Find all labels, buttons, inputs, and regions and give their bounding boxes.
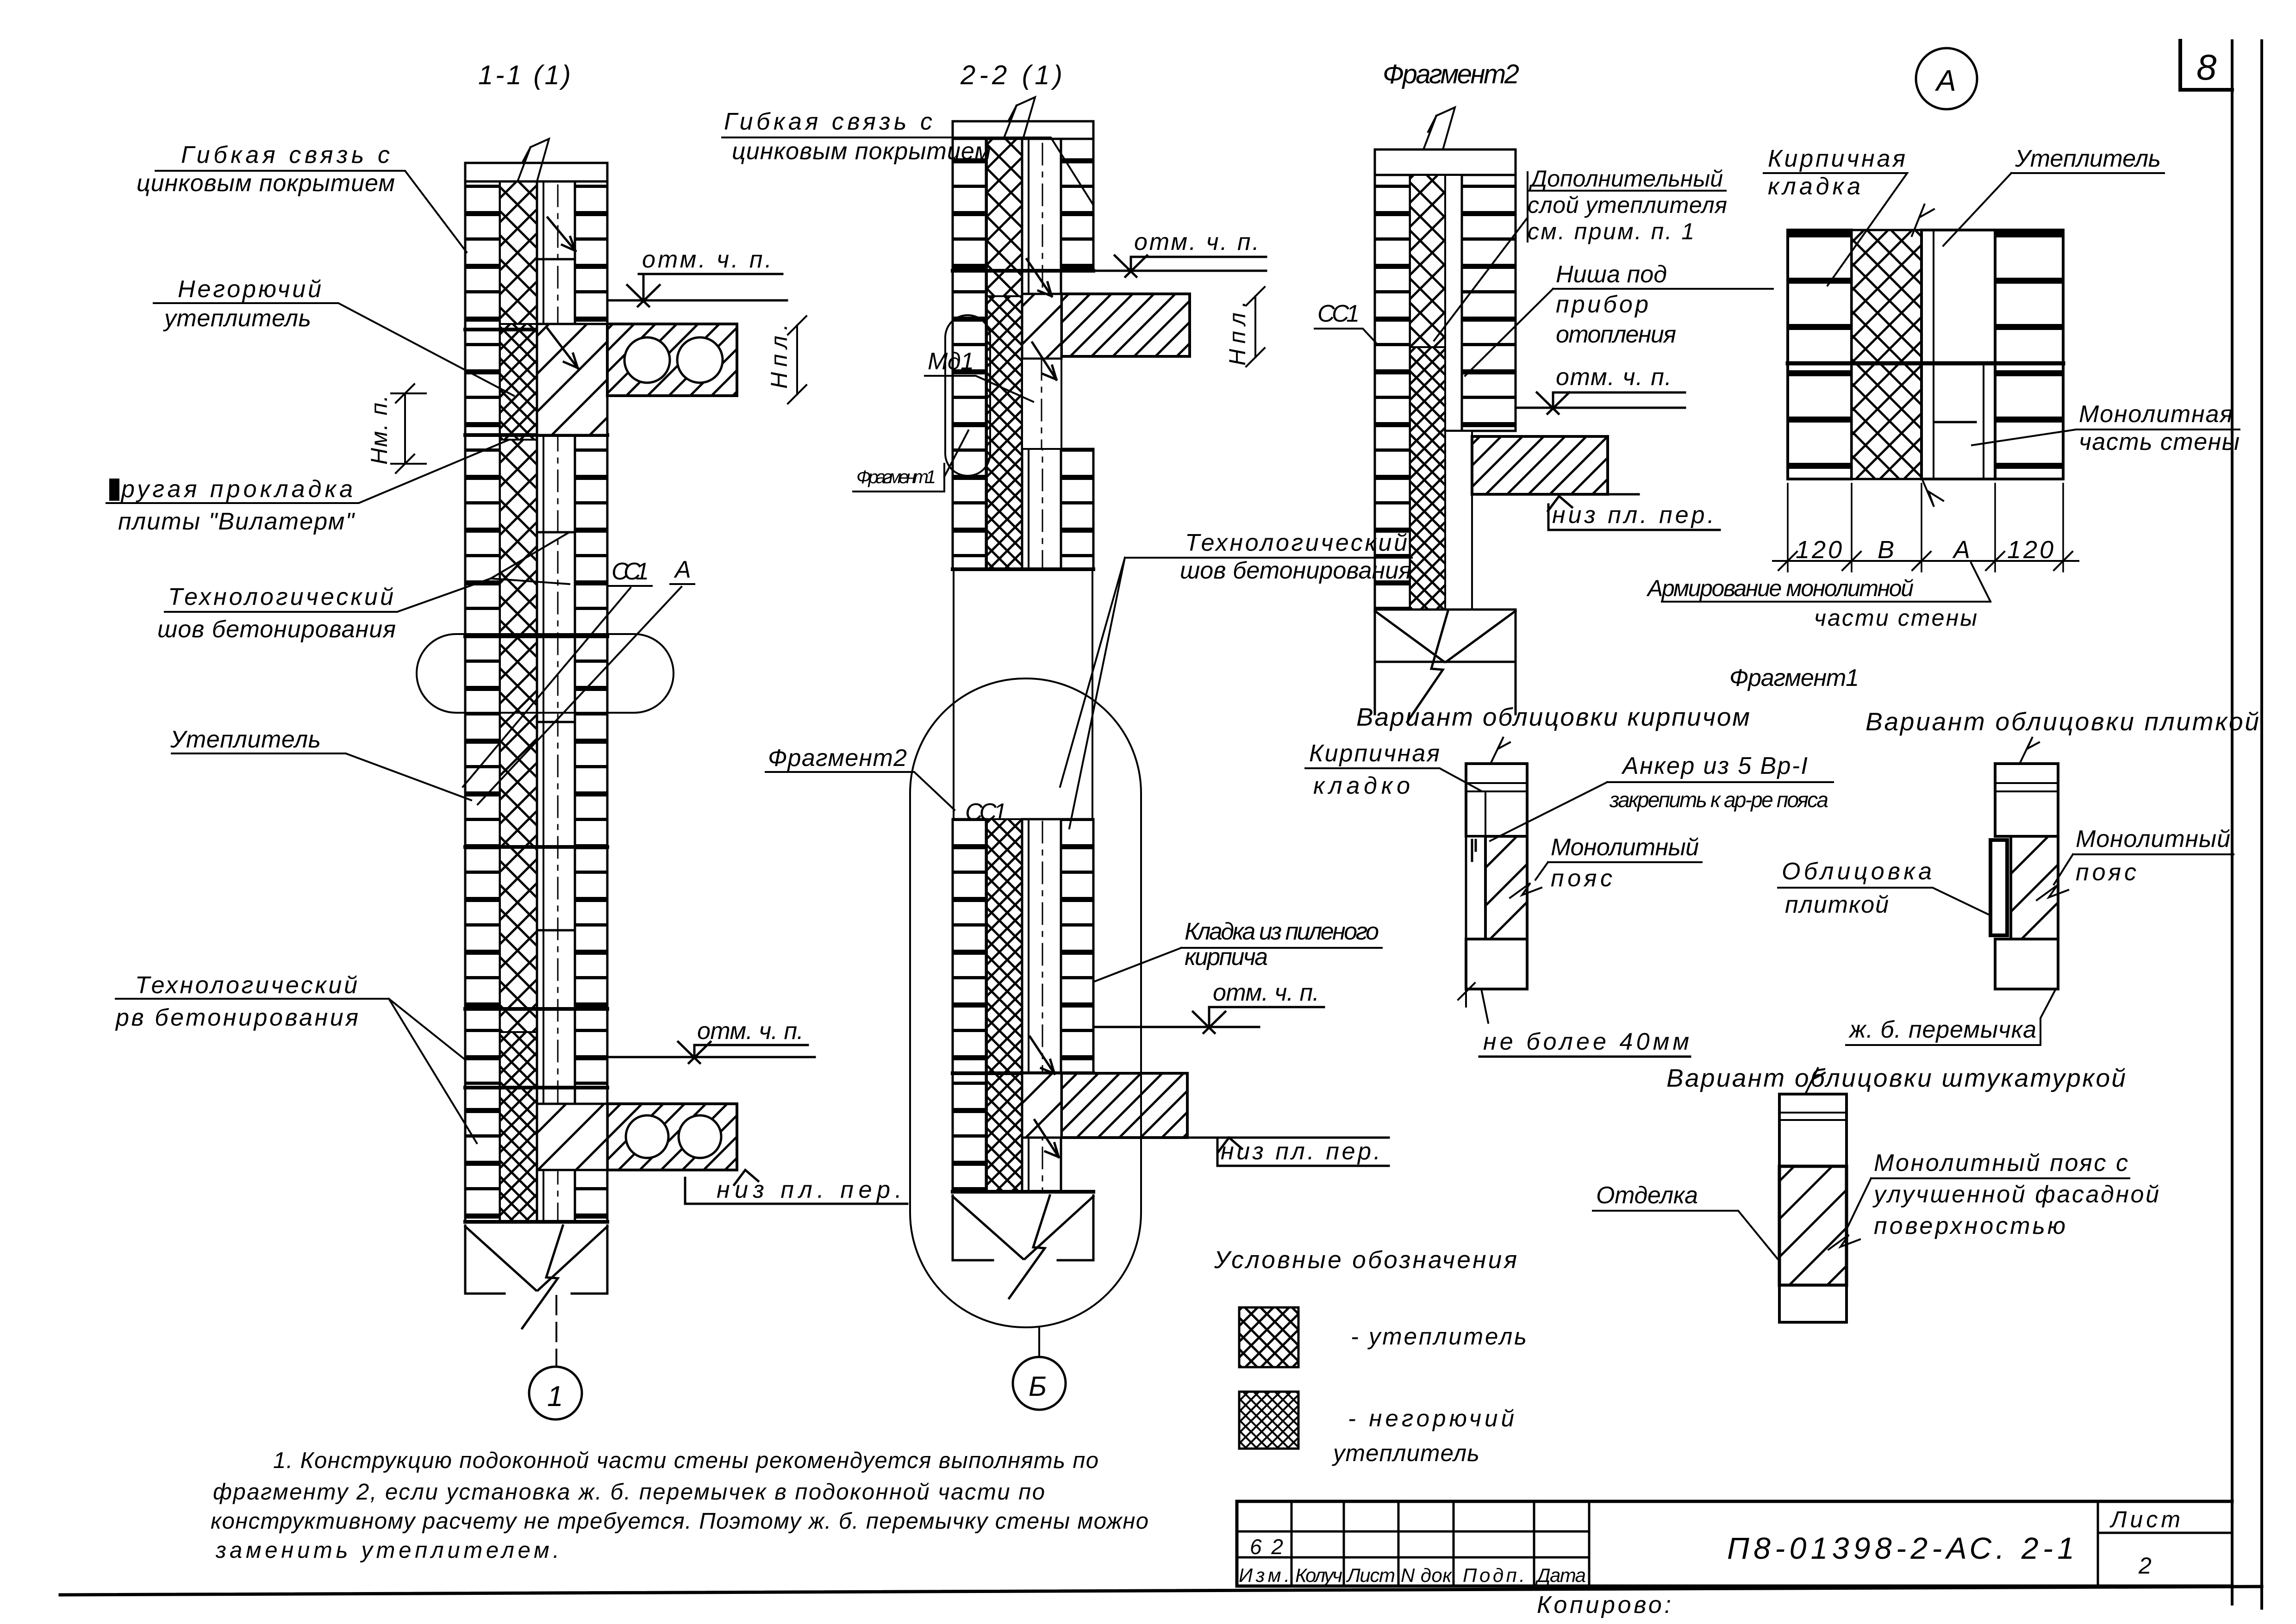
wall 1-1 joint line 2 (465, 433, 607, 437)
brick masonry leader (1764, 173, 1907, 286)
slab core circle 2 (677, 337, 723, 383)
lintel slab 2-2 lower (1061, 1073, 1187, 1138)
wall 1-1 top band (465, 163, 607, 181)
svg-text:Дополнительный: Дополнительный (1529, 166, 1723, 192)
svg-text:62: 62 (1250, 1535, 1283, 1559)
vtile top brick (1995, 764, 2058, 836)
wall 2-2 upper dense insulation band (987, 296, 1022, 569)
svg-text:ругая прокладка: ругая прокладка (120, 476, 353, 503)
belt v1 leader (1535, 862, 1702, 880)
detail A insulation (1852, 230, 1922, 479)
frag2 niche area (1445, 431, 1472, 610)
wall 1-1 top break arrow (518, 139, 549, 181)
svg-text:Фрагмент2: Фрагмент2 (768, 745, 907, 772)
svg-text:П8-01398-2-АС. 2-1: П8-01398-2-АС. 2-1 (1727, 1531, 2074, 1565)
frag2 slab bottom line (1608, 493, 1639, 496)
wall 1-1 inner brick leaf middle (575, 435, 607, 1104)
svg-text:Монолитный пояс с: Монолитный пояс с (1874, 1150, 2128, 1176)
wall 1-1 joint line 5 (465, 1007, 607, 1011)
svg-text:поверхностью: поверхностью (1874, 1213, 2065, 1239)
oblitsovka leader (1778, 888, 1990, 915)
lower slab core circle 1 (626, 1115, 668, 1158)
wall 1-1 break symbol (465, 1226, 607, 1294)
slab core circle 1 (624, 337, 670, 383)
lintel bearing zone 2-2 (1022, 294, 1061, 359)
big detail oval on 2-2 (910, 678, 1141, 1327)
tech joint arrow upper 2 (548, 329, 578, 368)
frag2 inner strip (1445, 175, 1462, 431)
tech joint 2 leader (116, 999, 477, 1143)
svg-text:Лист: Лист (2109, 1506, 2180, 1532)
wall 2-2 lower outer brick leaf (953, 819, 986, 1192)
vplaster top joint lines (1779, 1113, 1847, 1120)
detail oval A on 1-1 (417, 634, 674, 713)
svg-text:не более 40мм: не более 40мм (1483, 1028, 1689, 1055)
wall 1-1 joint line 6 (465, 1086, 607, 1089)
brick cut masonry leader (1095, 948, 1382, 981)
tech joint 2-2 leader (1060, 558, 1412, 828)
tech joint arrow upper 1 (548, 218, 575, 251)
svg-text:Вариант облицовки плиткой: Вариант облицовки плиткой (1865, 707, 2259, 736)
detail A monolithic strip (1922, 230, 1995, 479)
vbrick monolithic belt (1485, 836, 1527, 939)
svg-text:кладко: кладко (1313, 772, 1410, 799)
svg-text:Гибкая связь с: Гибкая связь с (724, 108, 932, 135)
svg-text:Утеплитель: Утеплитель (170, 726, 321, 753)
svg-text:закрепить к ар-ре пояса: закрепить к ар-ре пояса (1609, 788, 1828, 812)
slab bearing zone lower (537, 1104, 607, 1170)
section bubble 1 (529, 1367, 582, 1419)
wall 2-2 joint line b (953, 567, 1093, 571)
vbrick bottom brick (1466, 939, 1527, 989)
floor level line upper (607, 299, 787, 302)
vbrick facing strip (1466, 836, 1485, 939)
wall 2-2 lower insulation (987, 819, 1022, 1192)
svg-text:ж. б. перемычка: ж. б. перемычка (1848, 1016, 2036, 1043)
level line niz pl per 2-2 (1187, 1137, 1389, 1139)
section bubble B (1013, 1357, 1066, 1410)
svg-text:Подп.: Подп. (1463, 1564, 1525, 1586)
belt plaster leader (1848, 1178, 2129, 1226)
svg-text:утеплитель: утеплитель (163, 305, 311, 332)
svg-text:плиткой: плиткой (1785, 891, 1889, 918)
detail A middle joint (1788, 361, 2063, 366)
svg-text:1-1 (1): 1-1 (1) (478, 60, 571, 90)
svg-text:Нм. п.: Нм. п. (366, 395, 392, 465)
wall 2-2 lower axis dash line (1042, 821, 1043, 1192)
svg-text:шов бетонирования: шов бетонирования (1180, 557, 1411, 584)
floor level line lower (607, 1056, 815, 1058)
vtile monolithic belt (2011, 836, 2058, 939)
detail A inner brick (1995, 230, 2063, 479)
wall 1-1 bottom edge (465, 1220, 607, 1224)
wall 2-2 upper outer brick leaf (953, 139, 986, 569)
svg-text:8: 8 (2196, 47, 2216, 87)
section mark dash line 1 (555, 1296, 557, 1367)
detail A top break tick (1912, 204, 1934, 236)
svg-text:низ пл. пер.: низ пл. пер. (1552, 502, 1714, 529)
frag2 level line (1516, 407, 1685, 409)
svg-text:улучшенной фасадной: улучшенной фасадной (1872, 1181, 2159, 1208)
svg-text:Кладка из пиленого: Кладка из пиленого (1185, 918, 1379, 945)
svg-text:Фрагмент2: Фрагмент2 (1383, 59, 1519, 89)
detail A extension lines (1788, 484, 2063, 572)
title block left table verticals (1291, 1501, 1589, 1586)
vtile top joint lines (1995, 783, 2058, 791)
svg-text:120: 120 (1796, 536, 1842, 564)
vtile top break arrow (2020, 737, 2039, 764)
svg-text:N док: N док (1401, 1564, 1453, 1586)
svg-text:Технологический: Технологический (168, 584, 393, 610)
vbrick top joint lines (1466, 783, 1527, 836)
tech joint 1 leader (165, 532, 569, 612)
vbrick top break arrow (1491, 737, 1510, 764)
vplaster monolithic belt (1779, 1166, 1847, 1285)
vbrick belt zigzag (1510, 883, 1541, 898)
level line 2-2 upper (1093, 270, 1266, 272)
additional insulation leader (1434, 172, 1726, 341)
svg-text:отм. ч. п.: отм. ч. п. (1556, 364, 1672, 391)
svg-text:120: 120 (2007, 536, 2053, 564)
wall 2-2 lower inner face line (1028, 819, 1029, 1192)
lintel bearing lower 2-2 (1022, 1073, 1061, 1138)
reinforcement leader (1662, 563, 1990, 602)
frame right outer line (2260, 41, 2263, 1608)
wall 2-2 upper inner brick (1061, 139, 1093, 271)
wall 1-1 inner brick leaf upper (575, 181, 607, 324)
floor slab 1-1 lower (607, 1104, 737, 1170)
wall 2-2 middle face lines (953, 569, 955, 819)
wall 2-2 top break arrow (1004, 97, 1035, 139)
svg-text:- негорючий: - негорючий (1348, 1405, 1514, 1431)
wall 2-2 lower inner layer (1022, 819, 1061, 1192)
svg-text:конструктивному расчету не тре: конструктивному расчету не требуется. По… (211, 1509, 1148, 1534)
detail A dim line (1773, 560, 2078, 562)
legend swatch dense insulation (1239, 1392, 1298, 1449)
wall 1-1 inner brick leaf lower (575, 1170, 607, 1222)
wall 1-1 break zigzag (522, 1226, 563, 1328)
frag2 outer brick leaf (1375, 175, 1410, 610)
wall 2-2 upper inner layer (1022, 139, 1061, 569)
svg-text:низ пл. пер.: низ пл. пер. (717, 1176, 902, 1203)
frag2 slab (1472, 436, 1608, 494)
tech joint arrows 2-2 lower (1030, 1037, 1059, 1157)
level line 2-2 middle (1093, 1026, 1259, 1028)
svg-text:Отделка: Отделка (1596, 1182, 1698, 1209)
detail A dim ticks (1778, 552, 2072, 570)
frag2 insulation upper (1410, 175, 1445, 347)
svg-text:пояс: пояс (2076, 859, 2136, 886)
detail A monolithic face line (1933, 230, 1934, 479)
svg-text:часть стены: часть стены (2079, 429, 2240, 455)
svg-text:Фрагмент1: Фрагмент1 (856, 467, 936, 487)
svg-text:Изм.: Изм. (1239, 1564, 1290, 1586)
svg-text:А: А (674, 556, 691, 583)
svg-text:отм. ч. п.: отм. ч. п. (1134, 229, 1259, 255)
frag2 inner brick leaf (1462, 175, 1516, 431)
wall 2-2 joint line c (953, 1071, 1093, 1075)
svg-text:Монолитный: Монолитный (2076, 826, 2230, 852)
svg-text:Монолитная: Монолитная (2079, 401, 2233, 428)
wall 1-1 dense insulation band lower (500, 1032, 537, 1222)
svg-text:Технологический: Технологический (1185, 529, 1407, 556)
svg-text:цинковым покрытием: цинковым покрытием (137, 170, 395, 197)
non-combustible leader (154, 303, 514, 396)
svg-text:шов бетонирования: шов бетонирования (157, 616, 396, 643)
svg-text:фрагменту 2, если установка ж: фрагменту 2, если установка ж. б. перемы… (213, 1480, 1045, 1505)
svg-text:Ниша под: Ниша под (1556, 261, 1667, 288)
vbrick top brick (1466, 764, 1527, 836)
svg-text:А: А (1952, 536, 1970, 564)
TITLEBLOCK (1237, 1501, 2232, 1586)
title block left table horizontals (1237, 1531, 1589, 1557)
svg-text:пояс: пояс (1551, 865, 1612, 892)
vbrick bottom dim ticks (1458, 983, 1488, 1023)
wall 2-2 axis dash line (1042, 143, 1043, 569)
svg-text:цинковым покрытием: цинковым покрытием (732, 138, 991, 165)
kladka v1 leader (1305, 768, 1481, 791)
svg-text:1: 1 (547, 1381, 563, 1412)
svg-text:СС1: СС1 (1317, 300, 1360, 327)
slab bearing zone upper (537, 324, 607, 435)
svg-text:Технологический: Технологический (135, 972, 357, 999)
svg-text:В: В (1878, 536, 1894, 564)
title block outline (1237, 1501, 2232, 1586)
svg-text:см. прим. п. 1: см. прим. п. 1 (1528, 218, 1694, 244)
anchor leader (1490, 782, 1833, 841)
list box lines (2098, 1501, 2232, 1586)
otdelka leader (1593, 1211, 1778, 1259)
wall 1-1 joint line 1 (465, 328, 607, 331)
wall 2-2 lower inner brick (1061, 819, 1093, 1073)
svg-text:отм. ч. п.: отм. ч. п. (1213, 979, 1319, 1006)
svg-text:Монолитный: Монолитный (1551, 834, 1699, 861)
wall 1-1 outer brick leaf (465, 181, 500, 1222)
svg-text:Облицовка: Облицовка (1782, 858, 1932, 885)
vbrick anchor tick (1472, 840, 1476, 861)
wall 2-2 top band (953, 121, 1093, 139)
svg-text:Кирпичная: Кирпичная (1768, 145, 1905, 172)
flexible tie 2-2 leader (722, 137, 1092, 204)
wall 1-1 dense insulation band upper (500, 324, 537, 440)
insulation A leader (1943, 173, 2164, 246)
resilient gasket leader (106, 440, 509, 503)
lower slab core circle 2 (679, 1115, 721, 1158)
frag2 insulation lower dense (1410, 347, 1445, 610)
sheet number box (2180, 41, 2232, 90)
vtile bottom brick (1995, 939, 2058, 989)
wall 1-1 axis dash line (557, 185, 559, 1222)
vplaster top break arrow (1805, 1067, 1825, 1094)
vtile tile strip (1990, 840, 2007, 935)
frag2 bottom band (1375, 610, 1516, 662)
svg-text:прибор: прибор (1556, 291, 1648, 318)
svg-text:Лист: Лист (1346, 1564, 1395, 1586)
svg-text:Вариант облицовки кирпичом: Вариант облицовки кирпичом (1356, 703, 1750, 731)
small detail oval on 2-2 (945, 315, 990, 476)
wall 1-1 inner layer face line (543, 181, 544, 1222)
wall 1-1 inner monolithic layer (537, 181, 575, 1222)
svg-text:Нпл.: Нпл. (1224, 301, 1250, 366)
wall 1-1 joint line 4 (465, 845, 607, 849)
tech joint arrow 2-2 (1027, 259, 1056, 380)
frag2 break zigzag (1407, 611, 1448, 722)
svg-text:Негорючий: Негорючий (178, 276, 321, 303)
svg-text:Дата: Дата (1535, 1564, 1586, 1586)
svg-text:Фрагмент1: Фрагмент1 (1729, 665, 1859, 691)
wall 2-2 upper insulation (987, 139, 1022, 569)
vplaster bottom brick (1779, 1285, 1847, 1322)
svg-text:низ пл. пер.: низ пл. пер. (1221, 1138, 1380, 1165)
svg-text:Анкер из 5 Вр-I: Анкер из 5 Вр-I (1621, 753, 1808, 779)
monolithic part leader (1972, 429, 2240, 445)
svg-text:А: А (1934, 64, 1956, 97)
vplaster top brick (1779, 1094, 1847, 1166)
svg-text:плиты "Вилатерм": плиты "Вилатерм" (118, 508, 356, 535)
svg-text:слой утеплителя: слой утеплителя (1528, 192, 1727, 218)
legend swatch insulation (1239, 1307, 1298, 1367)
wall 1-1 tech joint ticks (538, 259, 574, 930)
frag2 top break arrow (1423, 107, 1455, 149)
frag2 top band (1375, 149, 1516, 175)
wall 2-2 break zigzag (1009, 1195, 1050, 1298)
belt v2 leader (2054, 854, 2234, 884)
svg-text:рв бетонирования: рв бетонирования (115, 1004, 358, 1031)
svg-text:кладка: кладка (1768, 173, 1860, 200)
frame bottom line (60, 1587, 2262, 1595)
svg-text:Мд1: Мд1 (928, 348, 974, 375)
svg-text:2: 2 (2138, 1553, 2152, 1579)
svg-text:Кирпичная: Кирпичная (1309, 740, 1440, 767)
svg-text:2-2 (1): 2-2 (1) (960, 60, 1062, 90)
svg-text:Б: Б (1029, 1371, 1047, 1402)
svg-text:части стены: части стены (1814, 605, 1977, 631)
svg-text:Условные обозначения: Условные обозначения (1214, 1246, 1517, 1274)
svg-text:отопления: отопления (1556, 321, 1676, 348)
vplaster belt zigzag (1828, 1235, 1860, 1250)
svg-text:Армирование монолитной: Армирование монолитной (1646, 575, 1914, 601)
wall 2-2 upper inner face line (1028, 139, 1029, 569)
svg-text:Копирово:: Копирово: (1537, 1592, 1671, 1618)
floor slab 1-1 upper (607, 324, 737, 396)
wall 2-2 break symbol (953, 1195, 1093, 1260)
flexible tie leader 1-1 (156, 171, 467, 252)
lintel slab 2-2 upper (1061, 294, 1190, 356)
insulation leader (172, 753, 471, 800)
vtile belt zigzag (2037, 885, 2068, 900)
svg-text:заменить утеплителем.: заменить утеплителем. (215, 1538, 559, 1563)
frag2 break symbol (1375, 611, 1516, 714)
detail A outer brick (1788, 230, 1852, 479)
wall 2-2 joint line a (953, 269, 1093, 273)
detail bubble A (1916, 48, 1977, 109)
svg-text:1. Конструкцию подоконной час: 1. Конструкцию подоконной части стены ре… (273, 1448, 1098, 1473)
svg-text:- утеплитель: - утеплитель (1351, 1323, 1527, 1350)
wall 1-1 insulation layer (500, 181, 537, 1222)
svg-text:Утеплитель: Утеплитель (2015, 145, 2161, 172)
svg-text:утеплитель: утеплитель (1332, 1440, 1479, 1466)
svg-text:Колуч: Колуч (1295, 1564, 1342, 1586)
svg-text:СС1: СС1 (611, 558, 649, 585)
frag2 niche face (1445, 431, 1516, 436)
wall 1-1 joint line 3 (465, 635, 607, 638)
wall 2-2 bottom edge (953, 1190, 1093, 1194)
niche leader (1465, 289, 1773, 376)
svg-text:Вариант облицовки штукатуркой: Вариант облицовки штукатуркой (1666, 1064, 2126, 1092)
label resilient gasket line1 (109, 479, 119, 501)
svg-text:отм. ч. п.: отм. ч. п. (642, 246, 772, 273)
svg-text:отм. ч. п.: отм. ч. п. (697, 1018, 804, 1045)
frame right inner line (2231, 41, 2234, 1604)
svg-text:Гибкая связь с: Гибкая связь с (181, 142, 390, 168)
section mark dash line B (1038, 1328, 1040, 1357)
detail A bottom break tick (1921, 477, 1943, 507)
